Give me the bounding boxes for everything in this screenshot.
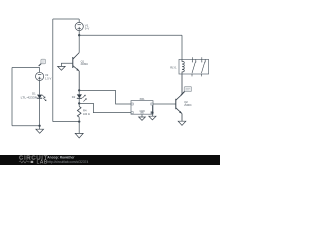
LED D1 <box>37 95 42 99</box>
Q2 emitter arrow <box>179 111 182 113</box>
relay coil <box>182 59 184 74</box>
wire top-left horizontal <box>53 18 79 20</box>
svg-text:D1: D1 <box>32 92 36 96</box>
svg-text:1.5 V: 1.5 V <box>45 76 51 80</box>
wire emitter node horizontal <box>79 89 115 91</box>
svg-text:R4: R4 <box>83 109 87 113</box>
wire left bottom horizontal <box>53 121 79 123</box>
wire to XR1 pin1 <box>116 90 131 104</box>
svg-text:LTL-4233N: LTL-4233N <box>21 95 38 99</box>
CircuitLab logo zigzag <box>19 161 30 163</box>
wire Q1 collector vertical <box>78 35 80 52</box>
CircuitLab logo square <box>31 161 34 163</box>
wire XR1 right pins vertical <box>151 105 153 116</box>
annotation bubble at V2 <box>39 59 46 66</box>
wire left branch bottom horizontal <box>12 125 40 127</box>
wire left branch vertical <box>11 68 13 126</box>
transistor Q2 <box>176 74 182 121</box>
wire XR1 to Q2 base <box>153 103 176 105</box>
ground below D1 <box>36 129 44 133</box>
D2 light arrows <box>82 95 86 101</box>
XR1 pin squares <box>131 103 153 114</box>
wire D2 to R4 <box>78 98 80 106</box>
wire left vertical <box>52 19 54 122</box>
wire relay drop vertical <box>181 35 183 59</box>
wire XR1 gnd stub <box>141 114 143 117</box>
IC XR1 box <box>131 101 153 115</box>
voltage source V1 <box>75 22 83 30</box>
Q1 emitter arrow <box>76 68 79 71</box>
watermark bar <box>0 155 220 165</box>
LED D2 <box>77 90 82 98</box>
ground below XR1 <box>139 117 146 120</box>
wire Q1 base <box>61 63 72 66</box>
node junction under V1 <box>78 34 80 36</box>
svg-text:http://circuitlab.com/c/32374: http://circuitlab.com/c/32374 <box>47 160 88 164</box>
relay contact 2 <box>201 57 205 76</box>
node junction at Q1 emitter <box>78 89 80 91</box>
svg-text:100 Ω: 100 Ω <box>83 112 90 116</box>
svg-text:XR1: XR1 <box>139 97 145 101</box>
wire V2 top horizontal <box>12 67 40 69</box>
node junction tap to XR1 <box>78 102 80 104</box>
resistor R4 <box>77 106 81 117</box>
svg-text:2N3904: 2N3904 <box>81 62 89 66</box>
transistor Q1 <box>73 53 79 91</box>
relay RLY1 box <box>179 59 209 74</box>
node junction at R4 bottom <box>78 120 80 122</box>
node junction right of XR1 <box>151 111 153 113</box>
ground at Q1 base <box>58 66 66 70</box>
relay contact 1 <box>192 57 196 76</box>
wire R4 to ground <box>78 117 80 133</box>
svg-text:2N3904: 2N3904 <box>184 103 192 107</box>
wire tap to XR1 pin2 <box>79 103 131 112</box>
ground right of XR1 <box>149 116 156 120</box>
svg-text:D2: D2 <box>72 95 76 99</box>
svg-text:9 V: 9 V <box>85 27 90 31</box>
node junction at D1 ground <box>38 125 40 127</box>
wire V1 top stub <box>78 19 80 22</box>
wire V1 bottom stub <box>78 31 80 36</box>
svg-text:RLY1: RLY1 <box>170 66 177 70</box>
wire main horizontal to relay <box>79 34 182 36</box>
voltage source V2 <box>36 72 44 80</box>
svg-text:LAB: LAB <box>37 160 48 165</box>
svg-text:Anoop: Rawather: Anoop: Rawather <box>47 156 75 160</box>
annotation bubble at Q2 collector <box>181 87 192 96</box>
wire D1 bottom <box>39 98 41 126</box>
D1 light arrows <box>42 95 46 101</box>
wire gnd stub left <box>39 126 41 129</box>
wire V2 top stub <box>39 68 41 73</box>
ground below R4 <box>75 133 83 138</box>
wire V2 bottom <box>39 81 41 95</box>
ground at Q2 emitter <box>178 121 186 125</box>
